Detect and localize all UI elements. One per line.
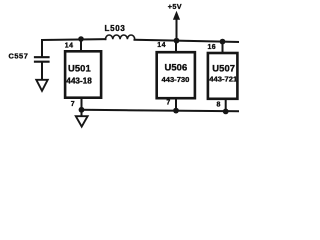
wire: top rail left segment (corner above C557 to inductor) xyxy=(42,38,106,41)
svg-text:14: 14 xyxy=(65,43,74,50)
svg-text:C557: C557 xyxy=(9,52,29,61)
op-amp U501 xyxy=(65,51,101,97)
inductor L503 xyxy=(106,35,135,39)
wire: pin 8 of U507 down to bottom rail xyxy=(225,99,227,111)
wire: pin 7 of U501 down to bottom rail xyxy=(81,98,83,110)
wire: C557 to ground xyxy=(41,63,43,80)
wire: bottom rail from U501 pin 7 to right edge xyxy=(82,110,240,111)
node: junction dot at U501 pin 7 xyxy=(79,107,85,113)
wire: top rail segment from +5V junction to U507 pin 16 junction xyxy=(177,41,223,42)
wire: pin 16 of U507 to top rail xyxy=(222,42,224,53)
node: junction dot at U506 pin 7 xyxy=(173,108,179,114)
wire: top rail segment from inductor to +5V junction xyxy=(135,39,177,42)
svg-text:443-730: 443-730 xyxy=(162,75,190,84)
svg-text:7: 7 xyxy=(166,99,170,106)
svg-text:U507: U507 xyxy=(212,62,235,73)
wire: pin 7 of U506 down to bottom rail xyxy=(175,98,177,110)
svg-text:16: 16 xyxy=(208,44,217,51)
op-amp U507 xyxy=(208,53,238,99)
node: junction dot at U507 pin 16 xyxy=(220,39,226,45)
svg-text:+5V: +5V xyxy=(168,2,182,11)
svg-text:443-18: 443-18 xyxy=(66,76,92,85)
svg-text:8: 8 xyxy=(217,101,221,108)
svg-text:443-721: 443-721 xyxy=(209,75,238,84)
node: junction dot at U507 pin 8 xyxy=(223,109,229,115)
wire: vertical from top-rail corner down to C557 xyxy=(41,40,43,56)
wire: top rail segment from U507 junction to right edge xyxy=(223,41,240,43)
svg-text:L503: L503 xyxy=(105,24,126,33)
svg-text:U501: U501 xyxy=(68,63,91,74)
svg-text:U506: U506 xyxy=(165,62,188,73)
capacitor C557 xyxy=(35,56,49,58)
ground (below C557) xyxy=(36,80,47,91)
svg-text:14: 14 xyxy=(157,42,166,49)
op-amp U506 xyxy=(157,52,195,98)
wire: stem to ground below U501 xyxy=(81,110,83,116)
node: junction dot at U501 pin 14 xyxy=(78,36,84,42)
ground (below U501 pin 7) xyxy=(76,116,88,126)
wire: pin 14 of U506 to top rail xyxy=(175,41,177,52)
node: junction dot at +5V / U506 pin 14 xyxy=(174,38,180,44)
svg-text:7: 7 xyxy=(71,101,75,108)
wire: pin 14 of U501 to top rail xyxy=(80,39,82,51)
